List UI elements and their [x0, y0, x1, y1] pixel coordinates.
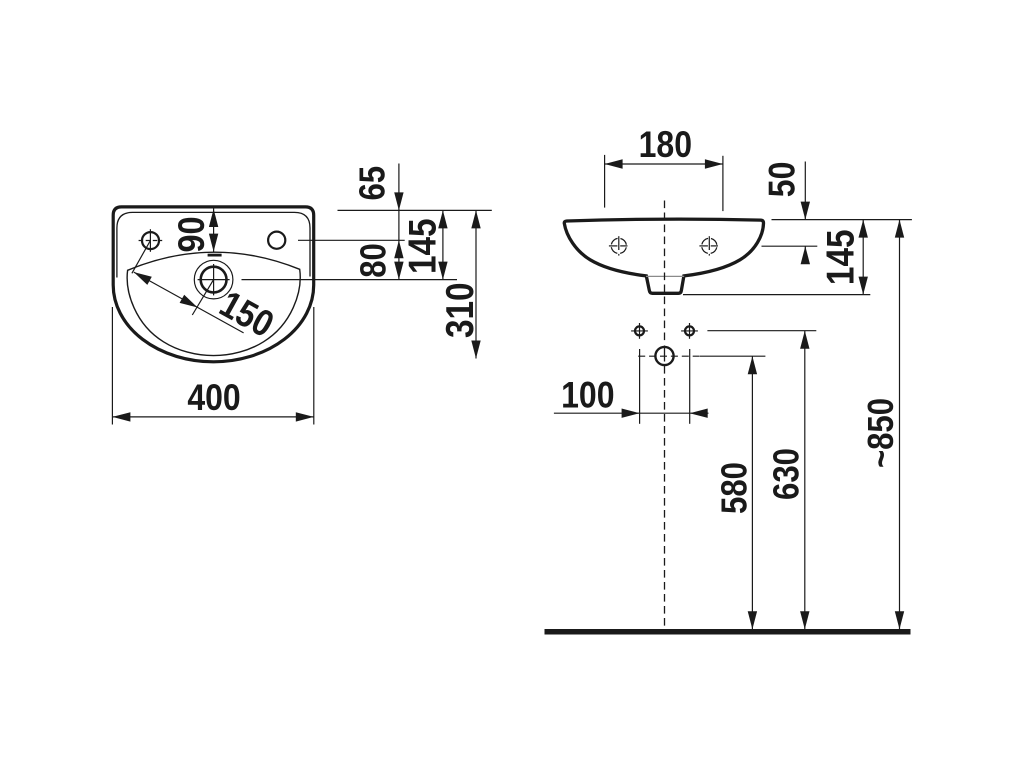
dimension ~850 down arrow [895, 611, 904, 629]
dimension 310 line [475, 210, 477, 358]
dimension 580 line [751, 356, 753, 629]
dimension 145 up arrow (front view) [859, 220, 868, 238]
dimension 310 up arrow [471, 210, 480, 228]
dimension 145 up arrow (top view) [438, 210, 447, 228]
svg-text:580: 580 [716, 462, 756, 514]
dimension 80 down arrow [394, 262, 403, 280]
drain stub top gray line [646, 275, 684, 277]
drain pipe circle (front view) [655, 347, 673, 365]
fixing hole symbol right vertical line [708, 236, 710, 250]
reference line drain pipe level [700, 355, 765, 357]
dimension 50 down arrow [801, 202, 810, 220]
dimension 180 right extension line [722, 156, 724, 211]
dimension 100 arrow pointing left [690, 409, 708, 418]
drain outer circle (top view) [194, 260, 233, 299]
fixing hole symbol right (front view) circle [702, 238, 717, 253]
dimension 150 extension line through faucet hole [132, 241, 151, 274]
reference line basin top edge extended [338, 209, 492, 211]
svg-text:~850: ~850 [862, 398, 902, 468]
dimension 150 extension line through drain [192, 280, 213, 315]
dimension 180 left arrow [605, 159, 623, 168]
wall fixing hole right circle [685, 326, 694, 335]
floor line [545, 629, 911, 635]
wall fixing hole right cross vertical [689, 323, 691, 339]
washbasin top view: inner rim line [117, 212, 310, 277]
dimension 90 line [213, 208, 215, 252]
svg-text:50: 50 [763, 162, 804, 198]
svg-text:100: 100 [561, 375, 614, 416]
dimension 400 left extension line [111, 307, 113, 425]
dimension 180 line [605, 163, 723, 165]
svg-text:400: 400 [187, 378, 240, 419]
svg-text:80: 80 [354, 243, 394, 278]
dimension 630 up arrow [800, 331, 809, 349]
wall fixing hole right cross horizontal [681, 330, 698, 332]
fixing hole symbol left horizontal line [609, 245, 618, 247]
wall fixing hole left circle [635, 326, 644, 335]
fixing hole symbol right horizontal line [699, 245, 708, 247]
reference line drain stub bottom [683, 294, 870, 296]
dimension 80 up arrow [394, 240, 403, 258]
dimension 100 line [554, 412, 709, 414]
dimension 630 down arrow [800, 611, 809, 629]
dimension 400 left arrow [112, 412, 130, 421]
wall fixing hole left cross horizontal [631, 330, 648, 332]
dimension 145 line (front view) [862, 220, 864, 295]
dimension 100 right extension line [689, 349, 691, 424]
drain crosshair horizontal [198, 279, 230, 281]
dimension 580 up arrow [748, 356, 757, 374]
dimension 50 up arrow [801, 246, 810, 264]
dimension 400 right arrow [296, 412, 314, 421]
dimension 310 down arrow [471, 341, 480, 359]
svg-text:310: 310 [438, 282, 482, 338]
reference line basin front top edge [772, 219, 912, 221]
reference line from drain center [242, 279, 458, 281]
wall fixing hole left cross vertical [639, 323, 641, 339]
reference line fixing holes level [762, 245, 818, 247]
washbasin top view: outer rim outline [113, 207, 314, 362]
dimension 180 right arrow [705, 159, 723, 168]
dimension 580 down arrow [748, 611, 757, 629]
dimension 145 line (top view) [442, 210, 444, 279]
dimension 150 arrow lower-right [180, 295, 198, 308]
dimension 630 line [804, 331, 806, 630]
svg-text:180: 180 [639, 125, 692, 166]
drain inner circle (top view) [201, 267, 227, 293]
dimension 150 line [134, 272, 244, 333]
dimension 90 down arrow [209, 234, 218, 252]
svg-text:65: 65 [354, 166, 394, 201]
dimension 65/80 line [398, 164, 400, 280]
washbasin top view: bowl opening outline [127, 252, 300, 355]
dimension 50 line upper [804, 162, 806, 220]
faucet hole circle (top view left) [142, 232, 159, 249]
reference line wall holes level [707, 330, 816, 332]
dimension 145 down arrow (front view) [859, 277, 868, 295]
washbasin front view outline [564, 219, 763, 293]
dimension 150 arrow upper-left [134, 272, 152, 285]
dimension 90 up arrow [209, 209, 218, 227]
drain crosshair vertical [213, 264, 215, 295]
faucet hole crosshair vertical [149, 229, 151, 252]
reference line from overflow hole [298, 239, 405, 241]
overflow hole circle (top view right) [268, 232, 285, 249]
dimension 100 left extension line [639, 349, 641, 424]
dimension 50 line lower tail [804, 246, 806, 264]
svg-text:90: 90 [171, 216, 213, 252]
dimension ~850 up arrow [895, 220, 904, 238]
dimension ~850 line [899, 220, 901, 630]
dimension 65 down arrow [394, 192, 403, 210]
svg-text:630: 630 [768, 448, 808, 500]
fixing hole symbol left (front view) circle [611, 238, 626, 253]
dimension 400 right extension line [313, 307, 315, 425]
svg-text:145: 145 [400, 218, 444, 274]
drain pipe horizontal dashed line [638, 355, 700, 357]
faucet hole crosshair horizontal (dashed) [139, 240, 163, 242]
dimension 180 left extension line [604, 155, 606, 208]
dimension 100 arrow pointing right [622, 409, 640, 418]
dimension 400 line [112, 416, 313, 418]
dimension 90 end tick [208, 254, 222, 257]
dimension 145 down arrow (top view) [438, 262, 447, 280]
svg-text:145: 145 [818, 230, 862, 286]
fixing hole symbol left vertical line [618, 236, 620, 250]
vertical center line (dashed) [664, 201, 666, 345]
